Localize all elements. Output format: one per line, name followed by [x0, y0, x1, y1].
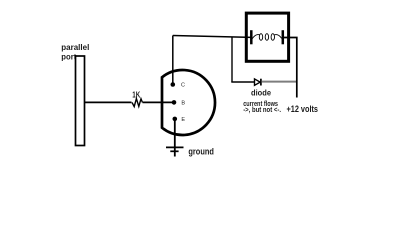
pin C dot — [171, 82, 176, 87]
svg-text:diode: diode — [251, 87, 271, 97]
transistor Q1 body — [162, 70, 215, 135]
coil winding — [252, 35, 259, 39]
wire diode branch vertical — [231, 37, 233, 82]
wire resistor to base — [143, 101, 175, 103]
pin B dot — [172, 100, 177, 105]
svg-text:C: C — [181, 83, 185, 89]
ground — [166, 146, 184, 148]
svg-text:E: E — [181, 117, 185, 123]
wire collector up — [172, 36, 174, 85]
wire diode branch horizontal — [231, 81, 254, 83]
relay box — [246, 13, 288, 61]
parallel port connector — [76, 56, 85, 146]
diode D1 triangle — [255, 79, 261, 85]
svg-text:ground: ground — [188, 147, 214, 157]
coil right terminal — [282, 30, 285, 44]
diode D1 cathode bar — [260, 79, 262, 86]
svg-text:+12 volts: +12 volts — [287, 104, 319, 115]
svg-text:->, but not <-.: ->, but not <-. — [243, 105, 281, 114]
wire base (port to resistor) — [85, 101, 132, 103]
wire top horizontal to relay — [173, 36, 252, 38]
svg-text:port: port — [61, 51, 76, 61]
wire diode to +12V rail (gray) — [262, 81, 297, 83]
svg-text:1K: 1K — [132, 90, 140, 99]
resistor R 1K — [132, 99, 142, 107]
svg-text:B: B — [181, 101, 185, 107]
wire emitter down — [174, 119, 176, 157]
wire relay to rail — [283, 38, 297, 98]
pin E dot — [173, 117, 178, 122]
coil left terminal — [250, 30, 253, 44]
